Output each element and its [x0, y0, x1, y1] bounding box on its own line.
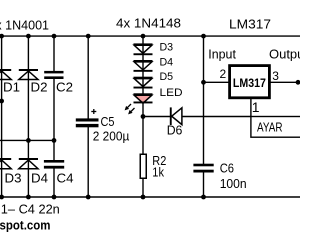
diode D1: [0, 69, 11, 80]
wire column C2 C4: [53, 36, 55, 197]
capacitor C5 electrolytic: [76, 109, 99, 127]
diode D4 (stack): [134, 60, 153, 72]
node bottom rail R2: [141, 195, 146, 200]
LED: [134, 93, 153, 103]
svg-text:3: 3: [272, 69, 279, 83]
node top rail D1: [0, 34, 4, 39]
resistor R2: [140, 154, 146, 178]
node output: [296, 80, 301, 85]
wire input pin2: [204, 81, 230, 83]
svg-text:D3: D3: [5, 172, 22, 186]
wire AC stub left: [0, 100, 2, 102]
svg-text:C4: C4: [57, 172, 74, 186]
svg-text:LM317: LM317: [229, 17, 271, 32]
capacitor C2: [44, 71, 63, 79]
wire column D2 D4: [27, 36, 29, 197]
svg-text:C5: C5: [101, 115, 115, 129]
svg-text:D1: D1: [3, 81, 20, 95]
svg-text:AYAR: AYAR: [257, 121, 283, 135]
diode D2: [19, 69, 38, 80]
diode D3 (bridge): [0, 158, 11, 169]
wire R2 to bottom rail: [142, 179, 144, 198]
diode D5 (stack): [134, 77, 153, 89]
svg-text:2 200µ: 2 200µ: [93, 130, 130, 144]
svg-text:D5: D5: [160, 71, 174, 83]
AYAR box: [251, 117, 303, 138]
svg-text:x 1N4001: x 1N4001: [0, 17, 49, 32]
svg-text:2: 2: [220, 67, 227, 81]
wire AC mid rail: [0, 139, 55, 141]
node top rail C5: [86, 34, 91, 39]
wire column C5: [87, 36, 89, 197]
node mid rail C2: [52, 138, 57, 143]
svg-text:1: 1: [252, 99, 260, 115]
wire bottom rail: [0, 196, 300, 198]
diode D6: [170, 107, 182, 125]
svg-text:D4: D4: [160, 56, 174, 68]
node bottom rail D4: [26, 195, 31, 200]
capacitor C6: [193, 164, 213, 173]
node mid rail D2: [26, 138, 31, 143]
svg-text:LED: LED: [160, 87, 183, 99]
node top rail D2: [26, 34, 31, 39]
capacitor C4: [44, 160, 64, 169]
node AC left: [0, 99, 4, 104]
LED arrows: [125, 104, 135, 114]
node bottom rail C5: [86, 195, 91, 200]
svg-text:C2: C2: [56, 81, 73, 95]
svg-text:D3: D3: [160, 42, 174, 54]
node top rail LED column: [141, 34, 146, 39]
svg-text:C6: C6: [220, 161, 234, 175]
svg-text:LM317: LM317: [233, 78, 266, 90]
wire pin1 lead: [250, 99, 252, 117]
svg-text:4x 1N4148: 4x 1N4148: [116, 16, 181, 31]
svg-text:Input: Input: [208, 47, 236, 61]
node top rail C6 column: [201, 34, 206, 39]
svg-text:1– C4 22n: 1– C4 22n: [1, 203, 60, 217]
svg-text:Output: Output: [269, 47, 300, 61]
diode D4 (bridge): [19, 158, 38, 169]
diode D3 (stack): [134, 43, 153, 55]
node bottom rail C6: [201, 195, 206, 200]
svg-text:spot.com: spot.com: [0, 218, 51, 233]
svg-text:D6: D6: [167, 124, 183, 138]
wire LED column: [142, 36, 144, 154]
svg-text:D4: D4: [31, 172, 48, 186]
wire top rail: [0, 35, 300, 37]
wire column D1 D3: [1, 36, 3, 197]
wire D6 adj line: [143, 116, 251, 118]
wire output pin3: [270, 81, 300, 83]
node bottom rail D3: [0, 195, 4, 200]
node bottom rail C4: [52, 195, 57, 200]
svg-text:1k: 1k: [152, 166, 164, 180]
node top rail C2: [52, 34, 57, 39]
wire C6 column: [203, 36, 205, 197]
node LED bottom: [141, 114, 146, 119]
regulator U1 LM317 box: [230, 66, 270, 98]
svg-text:D2: D2: [31, 81, 48, 95]
node input branch: [201, 80, 206, 85]
svg-text:100n: 100n: [220, 177, 247, 191]
